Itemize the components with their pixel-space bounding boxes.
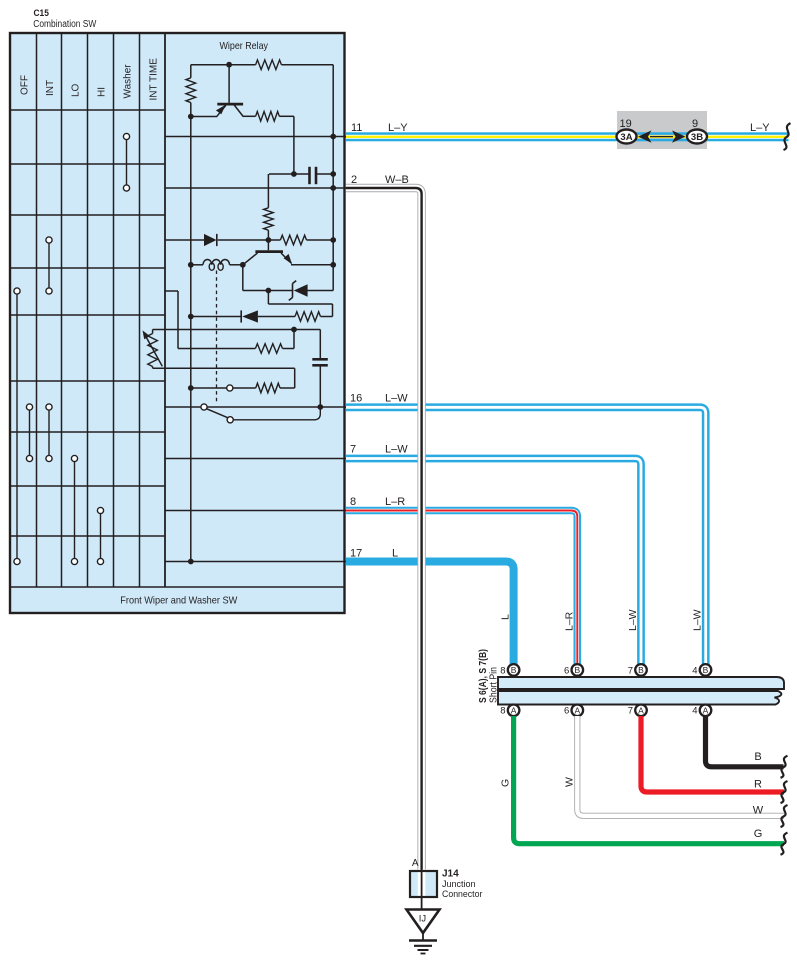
- wire R6 riser: [293, 330, 295, 349]
- short pin bar upper: [498, 677, 784, 689]
- terminal 6A: [572, 705, 584, 717]
- wire R: [641, 716, 784, 792]
- wire Q2 emitter row: [291, 264, 333, 266]
- grid row line 1: [10, 163, 165, 165]
- svg-text:LO: LO: [70, 83, 81, 97]
- svg-text:L–R: L–R: [385, 496, 405, 508]
- resistor R4: [264, 208, 274, 230]
- wire zener row: [243, 290, 294, 292]
- band line: [10, 586, 345, 588]
- svg-text:S 6(A), S 7(B): S 6(A), S 7(B): [478, 649, 489, 703]
- svg-text:8: 8: [500, 665, 505, 676]
- wire L-R pin8 to bar: [346, 511, 577, 665]
- ground stem: [422, 933, 424, 941]
- svg-text:R: R: [754, 779, 762, 791]
- contact INT upper: [48, 240, 50, 291]
- diode D1: [204, 234, 217, 246]
- node pin17 junction: [188, 559, 194, 565]
- wire cap2 bottom lead: [319, 366, 321, 407]
- terminal 6B: [572, 664, 584, 676]
- node diode row left: [266, 237, 272, 243]
- wire J14 to ground: [421, 862, 423, 910]
- node R2 bottom: [188, 114, 194, 120]
- wire pin 8 row: [165, 510, 346, 512]
- wire timer bottom row: [153, 367, 295, 369]
- wire cap row: [269, 173, 309, 175]
- svg-text:L–W: L–W: [692, 609, 704, 631]
- svg-text:Connector: Connector: [442, 889, 482, 900]
- svg-text:3B: 3B: [691, 132, 703, 143]
- terminal 8A: [508, 705, 520, 717]
- wire pin 17 row: [165, 561, 346, 563]
- grid column line 3: [87, 33, 89, 587]
- svg-text:4: 4: [692, 665, 697, 676]
- connector 3A: [617, 130, 637, 144]
- node cap row junction: [291, 171, 297, 177]
- wire zener branch vertical: [242, 265, 244, 291]
- wire coil leads: [191, 264, 203, 266]
- inductor relay coil: [203, 259, 230, 264]
- break L-Y: [784, 123, 791, 150]
- resistor R6: [255, 344, 282, 354]
- wire Q1 collector row: [243, 115, 256, 117]
- grid row line 5: [10, 380, 165, 382]
- svg-text:L–R: L–R: [563, 611, 575, 631]
- wire pin 11 row: [165, 136, 346, 138]
- resistor R2: [186, 78, 196, 103]
- wire pin 7 row: [165, 458, 346, 460]
- transistor Q1 emitter: [191, 116, 217, 118]
- grid row line 3: [10, 267, 165, 269]
- wire B: [706, 716, 784, 767]
- wire R6 row: [178, 348, 255, 350]
- break B: [781, 756, 788, 778]
- connector C15 combination switch box: [10, 33, 345, 613]
- grid column line 5: [139, 33, 141, 587]
- wire lower contact to cap: [233, 407, 320, 420]
- contact OFF long: [16, 291, 18, 562]
- transistor Q1 base bar: [217, 103, 243, 106]
- svg-text:B: B: [574, 665, 580, 675]
- wire L pin17 to bar: [346, 562, 514, 665]
- transistor Q1 base wire: [228, 65, 230, 103]
- grid column line 1: [36, 33, 38, 587]
- svg-text:A: A: [638, 705, 644, 715]
- node diode row right: [330, 237, 336, 243]
- svg-text:L–Y: L–Y: [388, 122, 408, 134]
- svg-text:7: 7: [628, 706, 633, 717]
- wire pin 16 row: [165, 406, 346, 408]
- svg-text:L–W: L–W: [627, 609, 639, 631]
- break R: [781, 781, 788, 803]
- node cap right: [330, 171, 336, 177]
- wire R8 row: [280, 387, 295, 389]
- wire top rail: [191, 64, 256, 66]
- resistor R3: [256, 112, 280, 122]
- contact wiper arm pivot: [201, 404, 207, 410]
- break G: [781, 833, 788, 855]
- svg-text:11: 11: [351, 122, 362, 134]
- svg-text:Wiper Relay: Wiper Relay: [220, 41, 269, 52]
- wire G: [514, 716, 784, 844]
- svg-text:L–W: L–W: [385, 393, 408, 405]
- svg-text:8: 8: [350, 496, 356, 508]
- mechanical link dashed line: [216, 271, 218, 404]
- svg-text:Short Pin: Short Pin: [489, 667, 500, 703]
- svg-text:Washer: Washer: [122, 64, 133, 99]
- wire pin 2 row: [165, 187, 346, 189]
- contact INT lower: [48, 407, 50, 459]
- svg-text:A: A: [412, 858, 419, 869]
- svg-text:C15: C15: [34, 8, 50, 19]
- svg-text:B: B: [638, 665, 644, 675]
- terminal 8B: [508, 664, 520, 676]
- contact LO: [74, 459, 76, 562]
- contact OFF lower: [29, 407, 31, 459]
- terminal 7B: [635, 664, 647, 676]
- break W: [781, 805, 788, 827]
- wire row4 stub: [165, 290, 178, 292]
- grid row line 7: [10, 485, 165, 487]
- node zener row junction: [266, 288, 272, 294]
- wire diode row: [165, 239, 204, 241]
- svg-text:7: 7: [628, 665, 633, 676]
- wire right vertical: [332, 65, 334, 291]
- arrow link line: [650, 136, 673, 138]
- grid row line 6: [10, 431, 165, 433]
- svg-text:6: 6: [564, 665, 569, 676]
- svg-text:A: A: [511, 705, 517, 715]
- svg-text:W: W: [753, 805, 764, 817]
- wire R3 to cap vertical: [293, 116, 295, 174]
- svg-text:8: 8: [500, 706, 505, 717]
- wire R4 vertical: [267, 174, 269, 208]
- svg-text:Combination SW: Combination SW: [33, 19, 97, 30]
- grid divider bus: [164, 33, 166, 587]
- node feedback left: [188, 314, 194, 320]
- grid header row line: [10, 109, 165, 111]
- node pin11 junction: [330, 134, 336, 140]
- grid row line 4: [10, 314, 165, 316]
- transistor Q2 base bar: [255, 250, 283, 253]
- wire W-B: [346, 188, 422, 870]
- arrow left: [638, 130, 652, 142]
- svg-text:9: 9: [692, 118, 698, 130]
- svg-text:INT: INT: [45, 80, 56, 96]
- short pin bar lower: [498, 691, 781, 705]
- grid column line 4: [113, 33, 115, 587]
- resistor R5: [280, 235, 306, 245]
- svg-text:B: B: [754, 751, 761, 763]
- wire L-W pin16 to bar: [346, 407, 706, 664]
- svg-text:INT TIME: INT TIME: [148, 58, 159, 101]
- transistor Q2 emitter: [281, 253, 292, 263]
- node pin16 junction: [317, 404, 323, 410]
- node timer contact left: [188, 385, 194, 391]
- wire L-W pin7 to bar: [346, 459, 641, 665]
- svg-text:G: G: [500, 779, 512, 787]
- resistor R7: [295, 312, 320, 322]
- contact HI: [100, 511, 102, 562]
- terminal 4A: [700, 705, 712, 717]
- wiper arm lever: [206, 409, 227, 418]
- svg-text:16: 16: [350, 393, 362, 405]
- svg-text:A: A: [703, 705, 709, 715]
- resistor R8: [256, 383, 280, 393]
- node top-left junction: [226, 62, 232, 68]
- wire timer top row: [153, 329, 321, 331]
- svg-text:B: B: [511, 665, 517, 675]
- svg-text:L–W: L–W: [385, 444, 408, 456]
- connector 3B: [687, 130, 707, 144]
- transistor Q2 collector: [243, 253, 258, 265]
- node pin2 junction: [330, 185, 336, 191]
- capacitor C2: [312, 358, 328, 361]
- zener diode ZD: [294, 284, 308, 297]
- contact wiper arm lower: [227, 417, 233, 423]
- svg-text:OFF: OFF: [19, 75, 30, 95]
- svg-text:IJ: IJ: [419, 914, 427, 925]
- arrow right: [672, 130, 686, 142]
- wire W: [577, 716, 784, 816]
- connector pass-through gray box: [617, 111, 707, 149]
- variable resistor VR: [148, 334, 158, 367]
- wire L-Y: [346, 132, 789, 135]
- svg-text:Front Wiper and Washer SW: Front Wiper and Washer SW: [120, 595, 237, 607]
- wire feedback loop: [267, 291, 269, 305]
- wire left long vertical: [190, 117, 192, 562]
- wire timer bottom riser: [294, 368, 296, 388]
- svg-text:L: L: [500, 614, 512, 620]
- ground bar 1: [409, 939, 437, 942]
- node Q2 collector junction: [240, 262, 246, 268]
- wire left vertical upper: [190, 65, 192, 78]
- svg-text:19: 19: [620, 118, 632, 130]
- svg-text:B: B: [703, 665, 709, 675]
- svg-text:A: A: [574, 705, 580, 715]
- svg-text:7: 7: [350, 444, 356, 456]
- node timer junction: [291, 327, 297, 333]
- ground bar 3: [418, 949, 429, 951]
- grid column line 2: [61, 33, 63, 587]
- svg-text:3A: 3A: [620, 132, 632, 143]
- grid row line 2: [10, 214, 165, 216]
- transistor Q2 base wire: [267, 240, 269, 250]
- svg-text:4: 4: [692, 706, 697, 717]
- junction connector J14 box: [410, 871, 437, 897]
- diode D2: [242, 310, 258, 322]
- node emitter row right: [330, 262, 336, 268]
- wire timer contact lead: [191, 387, 227, 389]
- svg-text:HI: HI: [96, 87, 107, 97]
- ground triangle IJ: [407, 910, 440, 934]
- node coil left: [188, 262, 194, 268]
- terminal 4B: [700, 664, 712, 676]
- resistor R1: [256, 60, 282, 70]
- svg-text:J14: J14: [442, 869, 459, 880]
- contact washer: [126, 137, 128, 189]
- svg-text:G: G: [754, 828, 763, 840]
- capacitor C1: [308, 167, 311, 184]
- terminal 7A: [635, 705, 647, 717]
- ground bar 2: [414, 945, 432, 947]
- ground bar 4: [421, 953, 426, 955]
- svg-text:W: W: [563, 777, 575, 787]
- grid row line 8: [10, 535, 165, 537]
- contact timer switch: [227, 385, 233, 391]
- svg-text:6: 6: [564, 706, 569, 717]
- transistor Q1 collector: [234, 105, 243, 117]
- wire stub vertical: [177, 291, 179, 349]
- wire cap2 top lead: [319, 330, 321, 359]
- svg-text:L–Y: L–Y: [750, 122, 770, 134]
